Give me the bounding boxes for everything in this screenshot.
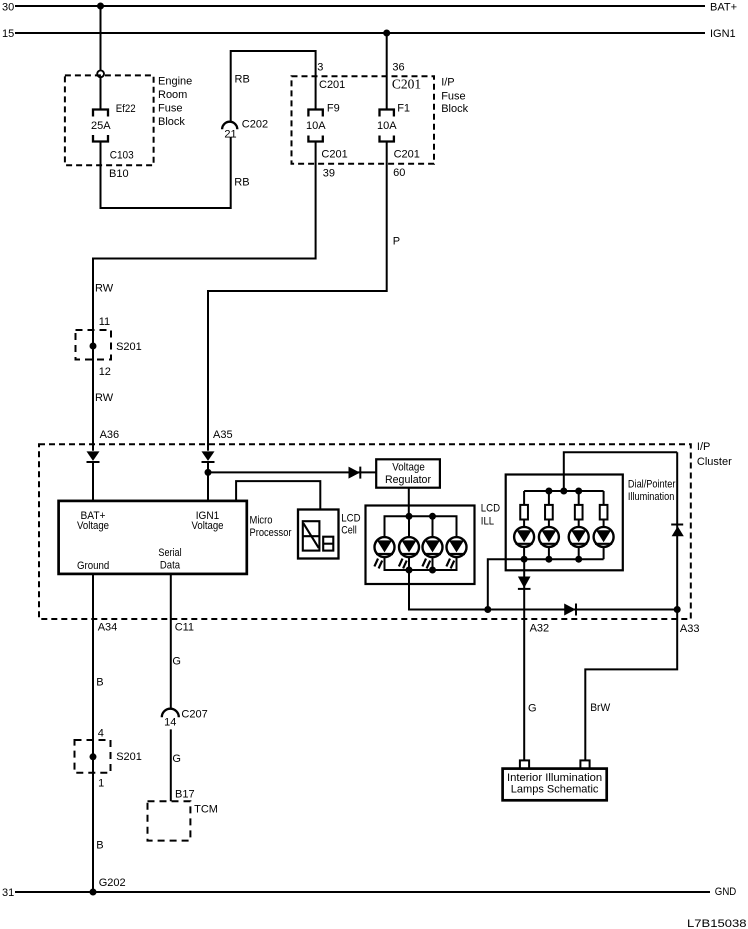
wire A36 diode to cluster box: [92, 462, 94, 501]
splice S201 upper: [76, 330, 112, 360]
diode D6 on return: [564, 604, 575, 616]
node junction on return line: [484, 606, 491, 613]
svg-text:I/P: I/P: [697, 441, 710, 453]
svg-text:G202: G202: [99, 877, 126, 889]
diode D5 pointing up: [671, 524, 683, 526]
svg-text:Fuse: Fuse: [158, 103, 182, 115]
svg-text:C202: C202: [242, 119, 268, 131]
svg-text:RB: RB: [234, 177, 249, 189]
wire rail30 to fuse block: [100, 6, 102, 70]
wire dial feed: [564, 452, 677, 491]
svg-text:S201: S201: [116, 341, 142, 353]
svg-text:Fuse: Fuse: [441, 90, 465, 102]
svg-text:A34: A34: [98, 621, 118, 633]
svg-text:60: 60: [393, 167, 405, 179]
diode at A36: [87, 451, 100, 461]
svg-text:10A: 10A: [377, 120, 397, 132]
wire A35 to voltage regulator: [208, 471, 376, 473]
svg-text:14: 14: [164, 716, 176, 728]
svg-text:30: 30: [2, 2, 14, 14]
svg-text:LCD: LCD: [341, 513, 360, 525]
wire dial bottom bus: [523, 547, 525, 559]
svg-text:B17: B17: [175, 789, 195, 801]
fuse Ef22: [93, 110, 108, 142]
wire Ef22 to C202: [101, 137, 231, 208]
svg-text:4: 4: [98, 727, 104, 739]
svg-text:Voltage: Voltage: [77, 520, 109, 532]
svg-text:A35: A35: [213, 429, 233, 441]
svg-text:C207: C207: [181, 709, 207, 721]
svg-text:Voltage: Voltage: [192, 520, 224, 532]
wire serial data C11: [170, 574, 172, 709]
svg-text:1: 1: [98, 777, 104, 789]
block LCD ILL: [366, 506, 475, 585]
LED dial 1: [514, 527, 534, 547]
svg-text:GND: GND: [715, 886, 737, 898]
block TCM: [148, 801, 191, 840]
wire C207 to TCM: [170, 729, 172, 801]
wire dial top bus: [524, 490, 604, 492]
wire LCD ILL top bus: [385, 516, 457, 537]
svg-text:Regulator: Regulator: [385, 474, 431, 486]
svg-text:L7B15038: L7B15038: [687, 918, 747, 929]
wire bus 15 IGN1 rail: [15, 32, 705, 34]
svg-text:S201: S201: [116, 751, 142, 763]
svg-text:25A: 25A: [91, 120, 111, 132]
diode D4 A32: [523, 559, 525, 760]
svg-text:C201: C201: [321, 149, 347, 161]
svg-text:Micro: Micro: [250, 514, 273, 526]
LED DS4: [446, 537, 466, 568]
block instrument cluster processor: [59, 501, 247, 574]
svg-text:Voltage: Voltage: [392, 461, 425, 473]
wire F1 P down to A35: [208, 142, 387, 451]
svg-text:A36: A36: [100, 429, 120, 441]
svg-text:11: 11: [99, 316, 110, 328]
svg-text:G: G: [172, 656, 181, 668]
terminal pin A32 lamp: [520, 760, 529, 768]
svg-text:31: 31: [2, 887, 14, 899]
svg-text:Cluster: Cluster: [697, 456, 732, 468]
resistor branch 4: [603, 491, 605, 505]
wire A33 branch: [585, 452, 677, 760]
wire LCD ILL bottom bus: [385, 557, 457, 570]
svg-text:Dial/Pointer: Dial/Pointer: [628, 478, 676, 490]
block Dial/Pointer Illumination: [506, 475, 623, 571]
wire rail15 to fuse F1: [386, 33, 388, 110]
svg-text:10A: 10A: [306, 120, 326, 132]
LED dial 3: [569, 527, 589, 547]
svg-text:Block: Block: [158, 116, 185, 128]
svg-text:Interior Illumination: Interior Illumination: [507, 772, 602, 784]
svg-text:12: 12: [99, 366, 111, 378]
cluster box I/P dashed: [39, 444, 691, 619]
terminal pin A33 lamp: [580, 760, 589, 768]
wire C202 up to fuse F9: [231, 51, 316, 121]
svg-text:RW: RW: [95, 283, 114, 295]
resistor branch 3: [578, 491, 580, 505]
LED dial 2: [539, 527, 559, 547]
svg-text:Ef22: Ef22: [116, 103, 136, 115]
splice S201 lower: [75, 740, 111, 773]
svg-text:P: P: [393, 236, 400, 248]
svg-text:Ground: Ground: [77, 560, 109, 572]
svg-text:C201: C201: [394, 149, 420, 161]
wire A35 diode to cluster box: [207, 462, 209, 501]
wire bus 30 BAT+ rail: [15, 5, 705, 7]
resistor branch 1: [523, 491, 525, 505]
svg-text:15: 15: [2, 28, 14, 40]
svg-text:Serial: Serial: [158, 547, 181, 559]
block Interior Illumination Lamps: [503, 769, 607, 801]
svg-text:B: B: [96, 677, 103, 689]
svg-text:LCD: LCD: [481, 503, 500, 515]
svg-text:RW: RW: [95, 392, 114, 404]
svg-text:C201: C201: [319, 79, 345, 91]
LCD cell inner symbol: [303, 521, 334, 550]
terminal circle at engine fuse block: [97, 70, 104, 77]
svg-text:G: G: [172, 753, 181, 765]
svg-text:Lamps Schematic: Lamps Schematic: [511, 784, 599, 796]
svg-text:F9: F9: [327, 103, 340, 115]
node junction A33: [674, 606, 681, 613]
svg-text:Cell: Cell: [341, 524, 357, 536]
fuse block box I/P: [292, 76, 435, 164]
connector C202 pin 21: [222, 122, 237, 130]
fuse block box Engine Room: [65, 75, 154, 165]
wire regulator output: [408, 488, 410, 517]
svg-text:39: 39: [323, 168, 335, 180]
svg-text:B10: B10: [109, 168, 129, 180]
svg-text:C103: C103: [110, 150, 134, 162]
svg-text:TCM: TCM: [194, 804, 218, 816]
node junction A35: [205, 469, 212, 476]
svg-text:ILL: ILL: [481, 515, 494, 527]
svg-text:C201: C201: [392, 77, 421, 92]
fuse F1: [380, 110, 394, 142]
svg-text:Illumination: Illumination: [628, 491, 674, 503]
LED DS2: [399, 537, 419, 568]
svg-text:Engine: Engine: [158, 76, 192, 88]
svg-text:I/P: I/P: [441, 76, 454, 88]
wire micro to LCD cell: [236, 481, 320, 509]
LED dial 4: [594, 527, 614, 547]
svg-text:BrW: BrW: [590, 702, 611, 714]
wire F9 RW down to S201: [93, 142, 316, 451]
svg-text:Processor: Processor: [250, 527, 292, 539]
svg-text:BAT+: BAT+: [710, 2, 737, 14]
block U1 Voltage Regulator: [376, 459, 440, 487]
svg-text:B: B: [96, 840, 103, 852]
diode at A35: [202, 451, 215, 461]
svg-text:Data: Data: [160, 559, 181, 571]
wire ground A34: [92, 574, 94, 892]
node junction on rail 15: [383, 30, 390, 37]
node junction on rail 30: [97, 3, 104, 10]
fuse F9: [308, 110, 322, 142]
svg-text:3: 3: [317, 62, 323, 74]
wire terminal to fuse Ef22: [100, 77, 102, 109]
node ground G202: [90, 889, 97, 896]
resistor branch 2: [548, 491, 550, 505]
svg-text:IGN1: IGN1: [710, 28, 736, 40]
svg-text:C11: C11: [175, 621, 194, 633]
LED DS3: [422, 537, 442, 568]
svg-text:F1: F1: [397, 103, 410, 115]
svg-text:21: 21: [224, 128, 236, 140]
svg-text:Block: Block: [441, 103, 468, 115]
block LCD Cell: [298, 510, 339, 559]
svg-text:G: G: [528, 702, 537, 714]
diode D3 before regulator: [349, 467, 360, 479]
svg-text:RB: RB: [235, 74, 250, 86]
svg-text:A32: A32: [530, 623, 550, 635]
connector C207 pin 14: [162, 709, 179, 718]
LED DS1: [374, 537, 394, 568]
svg-text:Room: Room: [158, 89, 187, 101]
svg-text:36: 36: [392, 62, 404, 74]
wire LCD ILL return: [409, 570, 677, 610]
wire bus 31 GND rail: [15, 891, 710, 893]
svg-text:A33: A33: [680, 623, 700, 635]
